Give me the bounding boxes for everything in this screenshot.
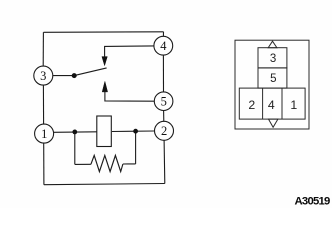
connector divider between 4 and 1 — [281, 88, 283, 119]
svg-text:2: 2 — [161, 124, 167, 138]
terminal circle 3 — [34, 66, 53, 85]
connector cavity box 3 — [258, 48, 287, 68]
wire: relay box right edge (terminal 2 to terminal 5) — [163, 111, 165, 122]
terminal circle 4 — [154, 36, 173, 55]
wire: relay box top edge — [44, 31, 164, 34]
wire: resistor right lead — [123, 163, 136, 165]
wire: relay box right edge upper (terminal 4 to top corner) — [162, 32, 164, 37]
connector keyway arrow up — [268, 41, 277, 48]
junction dot at switch pivot — [72, 73, 77, 78]
fixed contact arrowhead (down, from terminal 4) — [102, 57, 107, 66]
wire: terminal 5 to fixed contact (up leg) — [105, 92, 154, 101]
svg-text:1: 1 — [41, 127, 47, 141]
wire: terminal 3 to switch pivot — [53, 75, 74, 77]
wire: coil right to terminal 2 — [112, 130, 154, 133]
junction dot right of coil — [133, 129, 138, 134]
wire: terminal 4 to fixed contact (down leg) — [105, 46, 155, 57]
svg-text:A30519: A30519 — [295, 195, 331, 207]
svg-text:3: 3 — [40, 69, 46, 83]
switch blade (movable contact from pivot) — [74, 68, 106, 76]
svg-text:5: 5 — [161, 95, 167, 109]
svg-text:4: 4 — [268, 98, 275, 112]
connector keyway arrow down — [269, 119, 278, 127]
connector view outer frame — [235, 40, 309, 129]
svg-text:4: 4 — [160, 39, 167, 53]
connector cavity box 5 — [258, 68, 287, 88]
svg-text:2: 2 — [248, 98, 255, 112]
wire: relay box right edge lower (bottom corner to terminal 2) — [163, 140, 166, 183]
wire: resistor branch left vertical — [74, 132, 76, 165]
wire: terminal 1 to coil left — [54, 131, 97, 134]
wire: relay box left edge middle (terminal 3 to terminal 1) — [42, 85, 44, 124]
terminal circle 1 — [35, 124, 54, 143]
resistor zigzag — [91, 155, 123, 171]
relay coil (box symbol) — [97, 116, 112, 147]
svg-text:5: 5 — [270, 73, 276, 85]
connector divider between 2 and 4 — [262, 88, 264, 119]
terminal circle 5 — [154, 92, 173, 111]
wire: relay box left edge lower (terminal 1 to bottom corner) — [43, 143, 45, 185]
wire: relay box right edge (terminal 5 to terminal 4) — [162, 55, 164, 92]
wire: resistor branch right vertical — [135, 131, 137, 164]
svg-text:3: 3 — [270, 53, 276, 65]
wire: relay box left edge upper (corner to terminal 3) — [42, 32, 44, 66]
wire: resistor left lead — [75, 163, 91, 165]
terminal circle 2 — [155, 121, 174, 140]
connector bottom row outline — [239, 88, 305, 119]
svg-text:1: 1 — [290, 98, 297, 112]
junction dot left of coil — [72, 130, 77, 135]
wire: relay box bottom edge — [44, 184, 165, 185]
fixed contact arrowhead (up, from terminal 5) — [102, 81, 107, 92]
